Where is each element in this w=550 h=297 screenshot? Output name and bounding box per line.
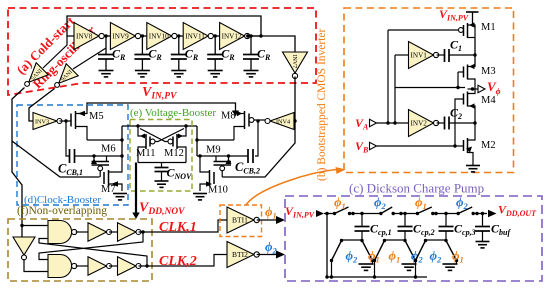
wire ring stage — [104, 35, 110, 37]
wire cross-couple 1 — [155, 129, 184, 142]
wire INV3 out — [60, 120, 72, 122]
wire S2 to S3 — [393, 213, 417, 215]
buffer BTI1 — [227, 207, 254, 233]
node ring n4 — [214, 34, 217, 37]
wire clock tap to M6 gate — [12, 141, 100, 177]
wire feedback CLK2 to NAND1 — [39, 239, 147, 267]
switch S3 phi1 — [416, 212, 419, 215]
wire V_A — [377, 122, 410, 124]
wire bus M1-M3 — [474, 38, 476, 65]
node n3a — [434, 212, 437, 215]
svg-text:BTI2: BTI2 — [232, 250, 248, 259]
buffer BTI2 — [227, 242, 254, 268]
svg-text:M5: M5 — [89, 111, 104, 122]
node VA rail2 — [393, 121, 396, 124]
arrow V_DD,NOV — [132, 213, 140, 220]
wire booster right vertical — [196, 126, 198, 156]
svg-text:INV9: INV9 — [112, 32, 129, 40]
node n2a — [399, 212, 402, 215]
svg-text:INV1: INV1 — [411, 51, 428, 59]
wire phi1 out — [257, 219, 278, 221]
wire pump top rail — [324, 213, 335, 215]
node Vphi — [471, 87, 474, 90]
transistor M12 — [177, 126, 186, 136]
transistor M5 — [70, 114, 72, 127]
arrow V_IN,PV pump — [316, 210, 324, 217]
box (e) voltage-booster — [130, 120, 192, 192]
node clock INV4 — [293, 119, 296, 122]
wire rail VA-M1gate — [387, 30, 389, 123]
node ring n2 — [141, 34, 144, 37]
wire booster bottom rail — [138, 162, 186, 164]
wire cross-couple 2 — [140, 129, 168, 142]
wire rail fb down — [394, 88, 396, 124]
wire pump left drop — [326, 214, 328, 278]
wire M6 node — [74, 155, 122, 157]
svg-text:INV8: INV8 — [76, 32, 93, 40]
transistor M8 — [248, 114, 250, 127]
inverter INV5 — [19, 63, 48, 92]
arrow phi2 — [276, 251, 285, 259]
node C_CB1 gate — [92, 154, 95, 157]
wire INV7 to INV4 input — [294, 77, 295, 122]
wire Vphi out — [468, 88, 479, 90]
node ring n5 — [249, 34, 252, 37]
inverter INV8 — [74, 23, 99, 50]
svg-text:INV2: INV2 — [411, 119, 428, 127]
wire S3 to S4 — [433, 213, 458, 215]
wire booster top rail — [122, 125, 197, 127]
switch bottom-right phi2 of Ccp2 — [403, 239, 406, 242]
terminal V_A — [370, 119, 377, 127]
wire M8 drain to rail — [197, 139, 234, 141]
wire INV5 input tap — [43, 36, 67, 68]
node ring n3 — [177, 34, 180, 37]
svg-text:CLK,2: CLK,2 — [159, 254, 197, 269]
svg-text:(f)Non-overlapping: (f)Non-overlapping — [17, 205, 107, 217]
svg-text:M2: M2 — [481, 140, 496, 151]
box BTI1 orange — [220, 205, 262, 237]
switch bottom-right phi1 of Ccp1 — [360, 239, 363, 242]
terminal Vphi — [478, 85, 485, 93]
box (c) dickson charge pump — [285, 196, 542, 281]
ground M2 — [466, 165, 480, 167]
wire V_B — [377, 99, 464, 146]
node n2b — [403, 212, 406, 215]
gate NAND1 — [48, 221, 72, 244]
arrow orange bti to bootstrap — [246, 169, 341, 205]
capacitor C_buf — [482, 214, 484, 227]
capacitor C_CB,2 — [247, 149, 249, 163]
ground C_NOV — [155, 180, 169, 182]
capacitor C_cp,1 — [361, 214, 363, 227]
wire phi2 out — [257, 254, 278, 256]
switch bottom-left phi1 of Ccp2 — [386, 239, 406, 241]
box (d) clock-booster — [17, 105, 128, 205]
node C_CB2 gate — [227, 154, 230, 157]
svg-text:M10: M10 — [208, 185, 228, 196]
node M5 drain — [120, 138, 123, 141]
node n4a — [475, 212, 478, 215]
capacitor C_CB,1 — [69, 149, 71, 163]
wire M3 gate tie — [457, 72, 459, 88]
box (f) non-overlapping — [8, 219, 152, 281]
node M12 drain — [184, 124, 187, 127]
svg-text:(e) Voltage-Booster: (e) Voltage-Booster — [130, 107, 216, 119]
wire NAND2 to U2a — [76, 265, 88, 267]
inverter INV4 — [270, 113, 294, 130]
ground M10 — [193, 193, 207, 195]
svg-text:INV10: INV10 — [149, 32, 169, 40]
node n3b — [444, 212, 447, 215]
node rail Ccp2 — [373, 275, 376, 278]
node M8 drain — [195, 138, 198, 141]
svg-text:M4: M4 — [481, 95, 496, 106]
wire INV1 in — [395, 54, 409, 56]
capacitor C_2 — [437, 122, 445, 124]
svg-text:CLK,1: CLK,1 — [159, 220, 197, 235]
inverter INV10 — [147, 23, 172, 50]
node INV4 out — [256, 119, 259, 122]
transistor M6 — [93, 156, 95, 162]
wire rail INV1-feedback — [395, 55, 465, 88]
transistor M11 — [138, 126, 146, 136]
inverter INV6 — [49, 64, 78, 93]
wire M9 node — [197, 155, 248, 157]
node C1 bus — [473, 53, 476, 56]
inverter U2b — [118, 257, 137, 276]
node rail Ccp1 — [330, 275, 333, 278]
node CLK2 fb — [145, 264, 148, 267]
capacitor C_R 1 — [105, 36, 107, 54]
capacitor C_cp,3 — [445, 214, 447, 227]
transistor M7 — [103, 172, 105, 184]
wire V_DD,NOV — [135, 163, 137, 214]
wire M8 gate — [254, 119, 265, 121]
wire INV3 node down to C_CB1 — [66, 121, 69, 156]
arrow V_DD,OUT — [488, 210, 497, 218]
node ring n1 — [104, 34, 107, 37]
wire ring stage — [177, 35, 183, 37]
capacitor C_1 — [437, 54, 445, 56]
wire ring stage — [213, 35, 219, 37]
svg-text:M9: M9 — [206, 145, 221, 156]
wire M5 drain to rail — [87, 139, 122, 141]
svg-text:INV4: INV4 — [276, 118, 290, 125]
inverter INV12 — [220, 23, 245, 50]
svg-text:M3: M3 — [481, 66, 496, 77]
wire ring stage — [141, 35, 147, 37]
transistor M3 — [463, 67, 465, 78]
wire INV5 output to non-overlap — [12, 88, 25, 238]
box (a) cold-start ring-oscillator — [8, 8, 316, 95]
node M10 top — [198, 154, 201, 157]
svg-text:INV3: INV3 — [35, 118, 49, 125]
label (a) Cold-start Ring-oscillator — [13, 7, 98, 92]
wire M3 gate — [458, 71, 464, 73]
capacitor C_R 4 — [214, 36, 216, 54]
transistor M2 — [463, 140, 465, 151]
box (b) bootstrapped inverter — [344, 8, 514, 173]
wire CLK1 out — [139, 220, 228, 232]
wire INV6 output to INV3 — [29, 89, 55, 122]
wire S4 to out — [473, 213, 487, 215]
node INV3 out — [64, 119, 67, 122]
wire feedback CLK1 to NAND2 — [39, 232, 143, 260]
node M11 drain — [136, 124, 139, 127]
node n1b — [360, 212, 363, 215]
node VA rail1 — [386, 121, 389, 124]
svg-text:M6: M6 — [101, 144, 116, 155]
inverter nonoverlap input — [13, 237, 35, 260]
wire pump bottom rail — [327, 276, 427, 278]
node ring out — [246, 34, 249, 37]
switch bottom-right phi1 of Ccp3 — [444, 239, 447, 242]
wire NAND1 to U1a — [76, 231, 88, 233]
inverter INV2 — [409, 110, 434, 137]
wire to NAND1 input a — [22, 225, 48, 227]
svg-text:M8: M8 — [221, 111, 236, 122]
wire U2a to U2b — [109, 265, 118, 267]
svg-text:M12: M12 — [164, 148, 184, 159]
svg-text:M11: M11 — [136, 148, 155, 159]
wire CLK2 out — [139, 255, 228, 267]
wire INV4 node down to C_CB2 — [255, 121, 258, 156]
transistor M1 — [463, 25, 465, 36]
inverter INV3 — [33, 113, 57, 130]
svg-text:INV11: INV11 — [185, 32, 205, 40]
wire V_IN,PV rail — [87, 103, 236, 111]
switch S2 phi2 — [379, 212, 382, 215]
wire inverter out to NAND2 — [24, 259, 48, 272]
capacitor C_R 2 — [141, 36, 143, 54]
capacitor C_cp,2 — [404, 214, 406, 227]
node n1a — [351, 212, 354, 215]
node ring feedback — [259, 34, 262, 37]
transistor M4 — [463, 94, 465, 105]
node pump in — [325, 212, 328, 215]
svg-text:(c) Dickson Charge Pump: (c) Dickson Charge Pump — [349, 181, 484, 196]
switch S4 phi2 — [457, 212, 460, 215]
inverter INV9 — [110, 23, 135, 50]
arrow V_IN,PV supply to M8 — [232, 111, 239, 117]
svg-text:BTI1: BTI1 — [232, 215, 248, 224]
gate NAND2 — [48, 255, 72, 278]
node M7 top — [120, 154, 123, 157]
inverter INV7 — [283, 52, 308, 79]
inverter U2a — [88, 257, 107, 276]
node nonoverlap in — [20, 224, 23, 227]
svg-text:INV7: INV7 — [291, 55, 297, 69]
wire INV6 input tap — [73, 48, 106, 69]
node CLK1 fb — [141, 230, 144, 233]
svg-text:(b) Bootstrapped CMOS Inverter: (b) Bootstrapped CMOS Inverter — [316, 28, 328, 181]
switch S1 phi1 — [333, 212, 336, 215]
wire supply T — [466, 11, 479, 13]
inverter INV1 — [409, 42, 434, 69]
capacitor C_R 3 — [178, 36, 180, 54]
capacitor C_NOV — [161, 163, 163, 168]
wire M1 gate — [388, 29, 459, 31]
node bottom in — [325, 275, 328, 278]
node rail Ccp3 — [414, 275, 417, 278]
transistor M10 — [213, 172, 215, 184]
node n4b — [481, 212, 484, 215]
wire booster left vertical — [121, 126, 123, 156]
inverter INV11 — [183, 23, 208, 50]
terminal V_B — [370, 142, 377, 150]
switch bottom-left phi2 of Ccp3 — [427, 239, 447, 241]
wire M2 gate — [455, 145, 464, 147]
arrow phi1 — [276, 216, 285, 224]
wire clock to M9 gate — [222, 121, 295, 177]
switch bottom-left phi2 of Ccp1 — [343, 239, 363, 241]
svg-text:M1: M1 — [481, 22, 496, 33]
inverter U1b — [118, 223, 137, 242]
wire ring feedback loop — [67, 16, 261, 36]
capacitor C_R 5 — [250, 36, 252, 54]
svg-text:INV12: INV12 — [222, 32, 242, 40]
ground M7 — [113, 193, 127, 195]
inverter U1a — [88, 223, 107, 242]
wire S1 to C1 — [350, 213, 381, 215]
wire INV12 output to INV7 — [250, 36, 295, 53]
node C2 bus — [473, 121, 476, 124]
wire U1a to U1b — [109, 231, 118, 233]
transistor M9 — [215, 156, 217, 162]
